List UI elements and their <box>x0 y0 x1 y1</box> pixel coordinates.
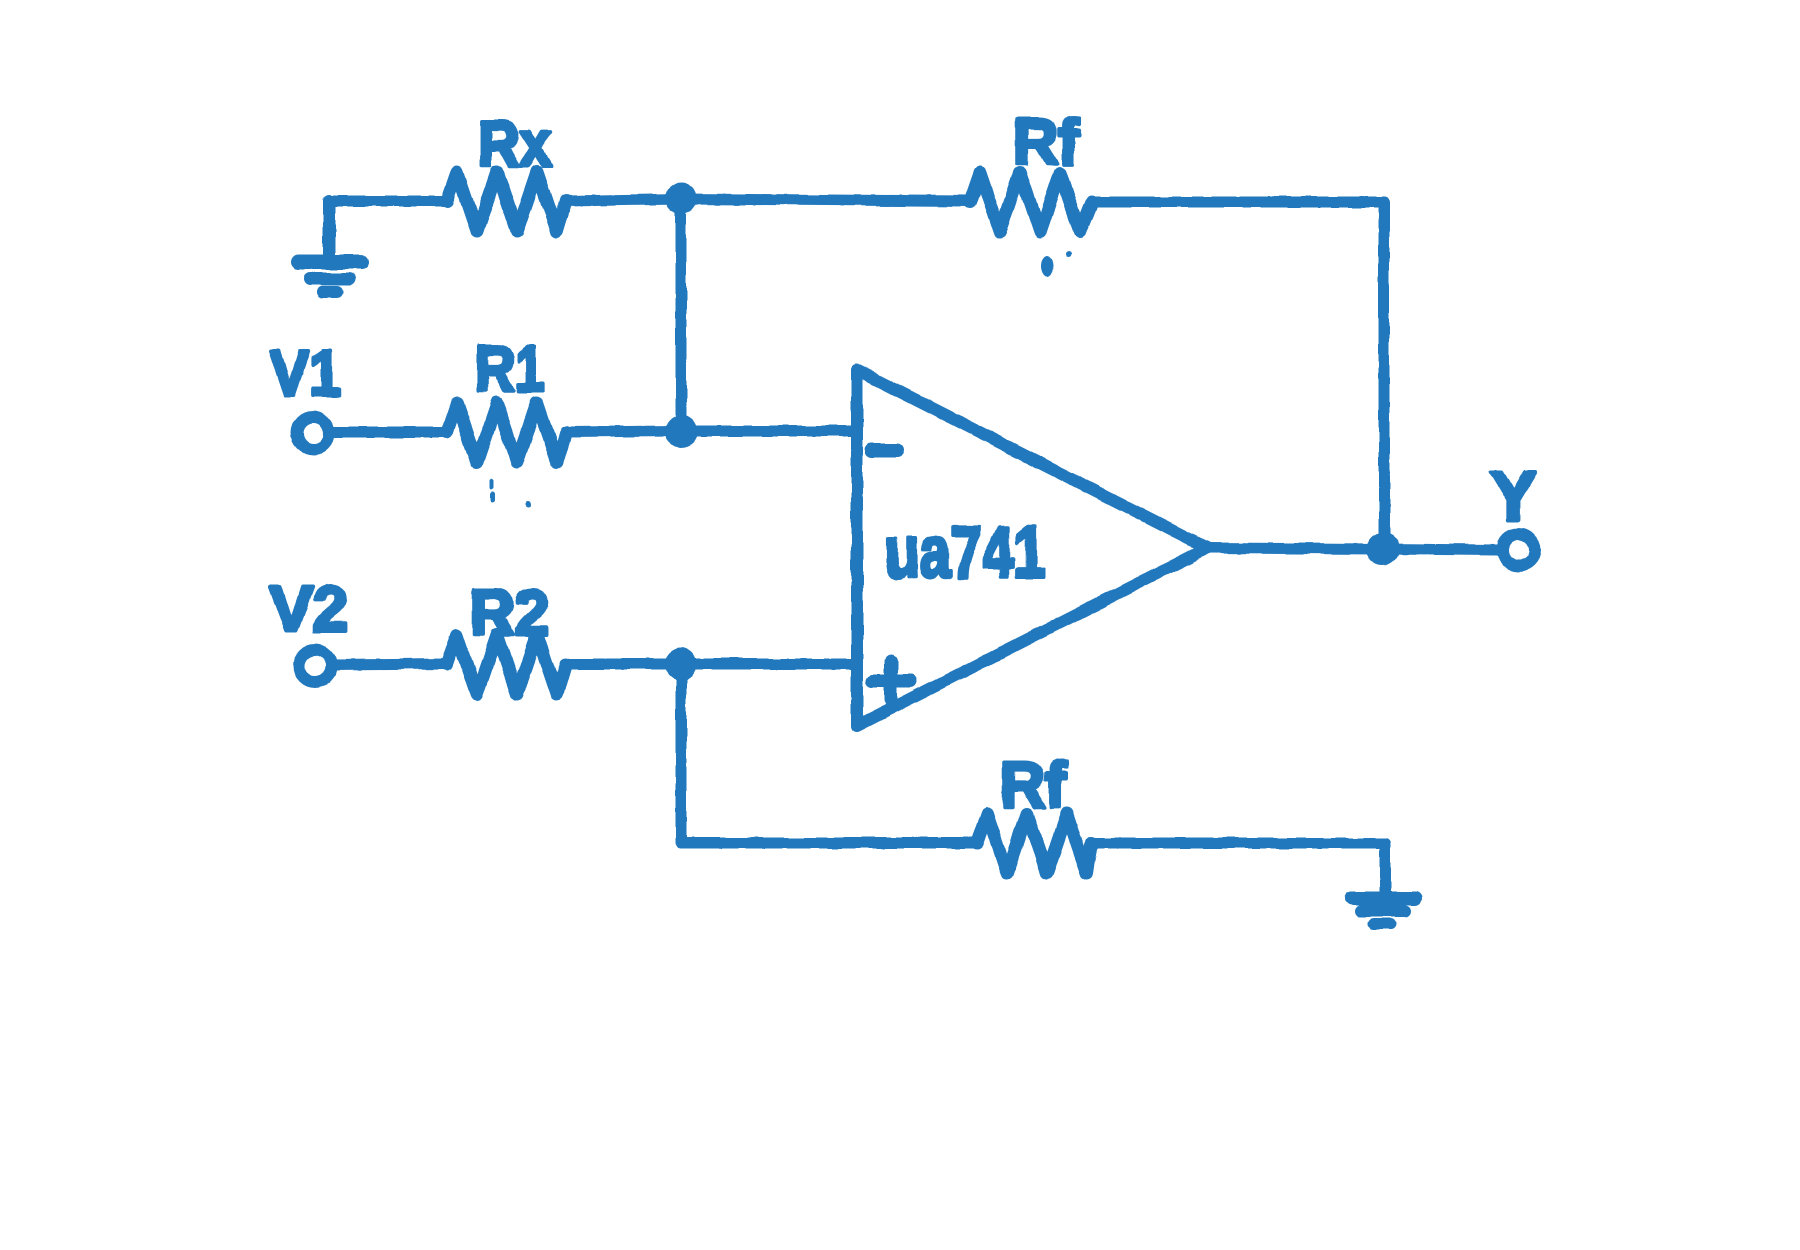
wire <box>566 659 681 670</box>
node B <box>665 415 697 447</box>
svg-text:V1: V1 <box>270 337 341 409</box>
wire <box>1092 843 1385 892</box>
wire <box>1383 549 1498 550</box>
ground <box>299 201 361 292</box>
svg-text:Rf: Rf <box>1000 749 1067 821</box>
wire <box>329 427 447 438</box>
svg-text:Rx: Rx <box>478 108 552 180</box>
svg-text:R2: R2 <box>470 577 549 649</box>
ground <box>1352 898 1415 924</box>
wire <box>566 431 681 432</box>
wire <box>681 664 977 843</box>
resistor Rf <box>970 173 1092 232</box>
resistor Rf2 <box>977 814 1092 873</box>
svg-text:Rf: Rf <box>1013 106 1080 178</box>
svg-text:Y: Y <box>1490 457 1537 535</box>
svg-text:ua741: ua741 <box>885 513 1045 593</box>
resistor R2 <box>447 635 566 694</box>
wire <box>1092 202 1384 549</box>
node A <box>665 182 697 214</box>
wire <box>329 196 447 207</box>
wire <box>1207 548 1384 549</box>
wire <box>676 199 687 431</box>
wire <box>566 199 681 201</box>
wire <box>331 664 447 665</box>
resistor Rx <box>447 172 566 231</box>
wire <box>681 659 857 670</box>
node C <box>665 648 697 680</box>
wire <box>681 199 970 201</box>
terminal V2 <box>299 650 331 682</box>
svg-text:V2: V2 <box>270 573 348 645</box>
resistor R1 <box>447 403 566 462</box>
op-amp U1 <box>857 370 1207 726</box>
terminal V1 <box>297 417 329 449</box>
terminal Y <box>1503 534 1535 566</box>
svg-text:R1: R1 <box>475 333 545 405</box>
wire <box>681 426 857 437</box>
node OUT <box>1366 532 1400 566</box>
